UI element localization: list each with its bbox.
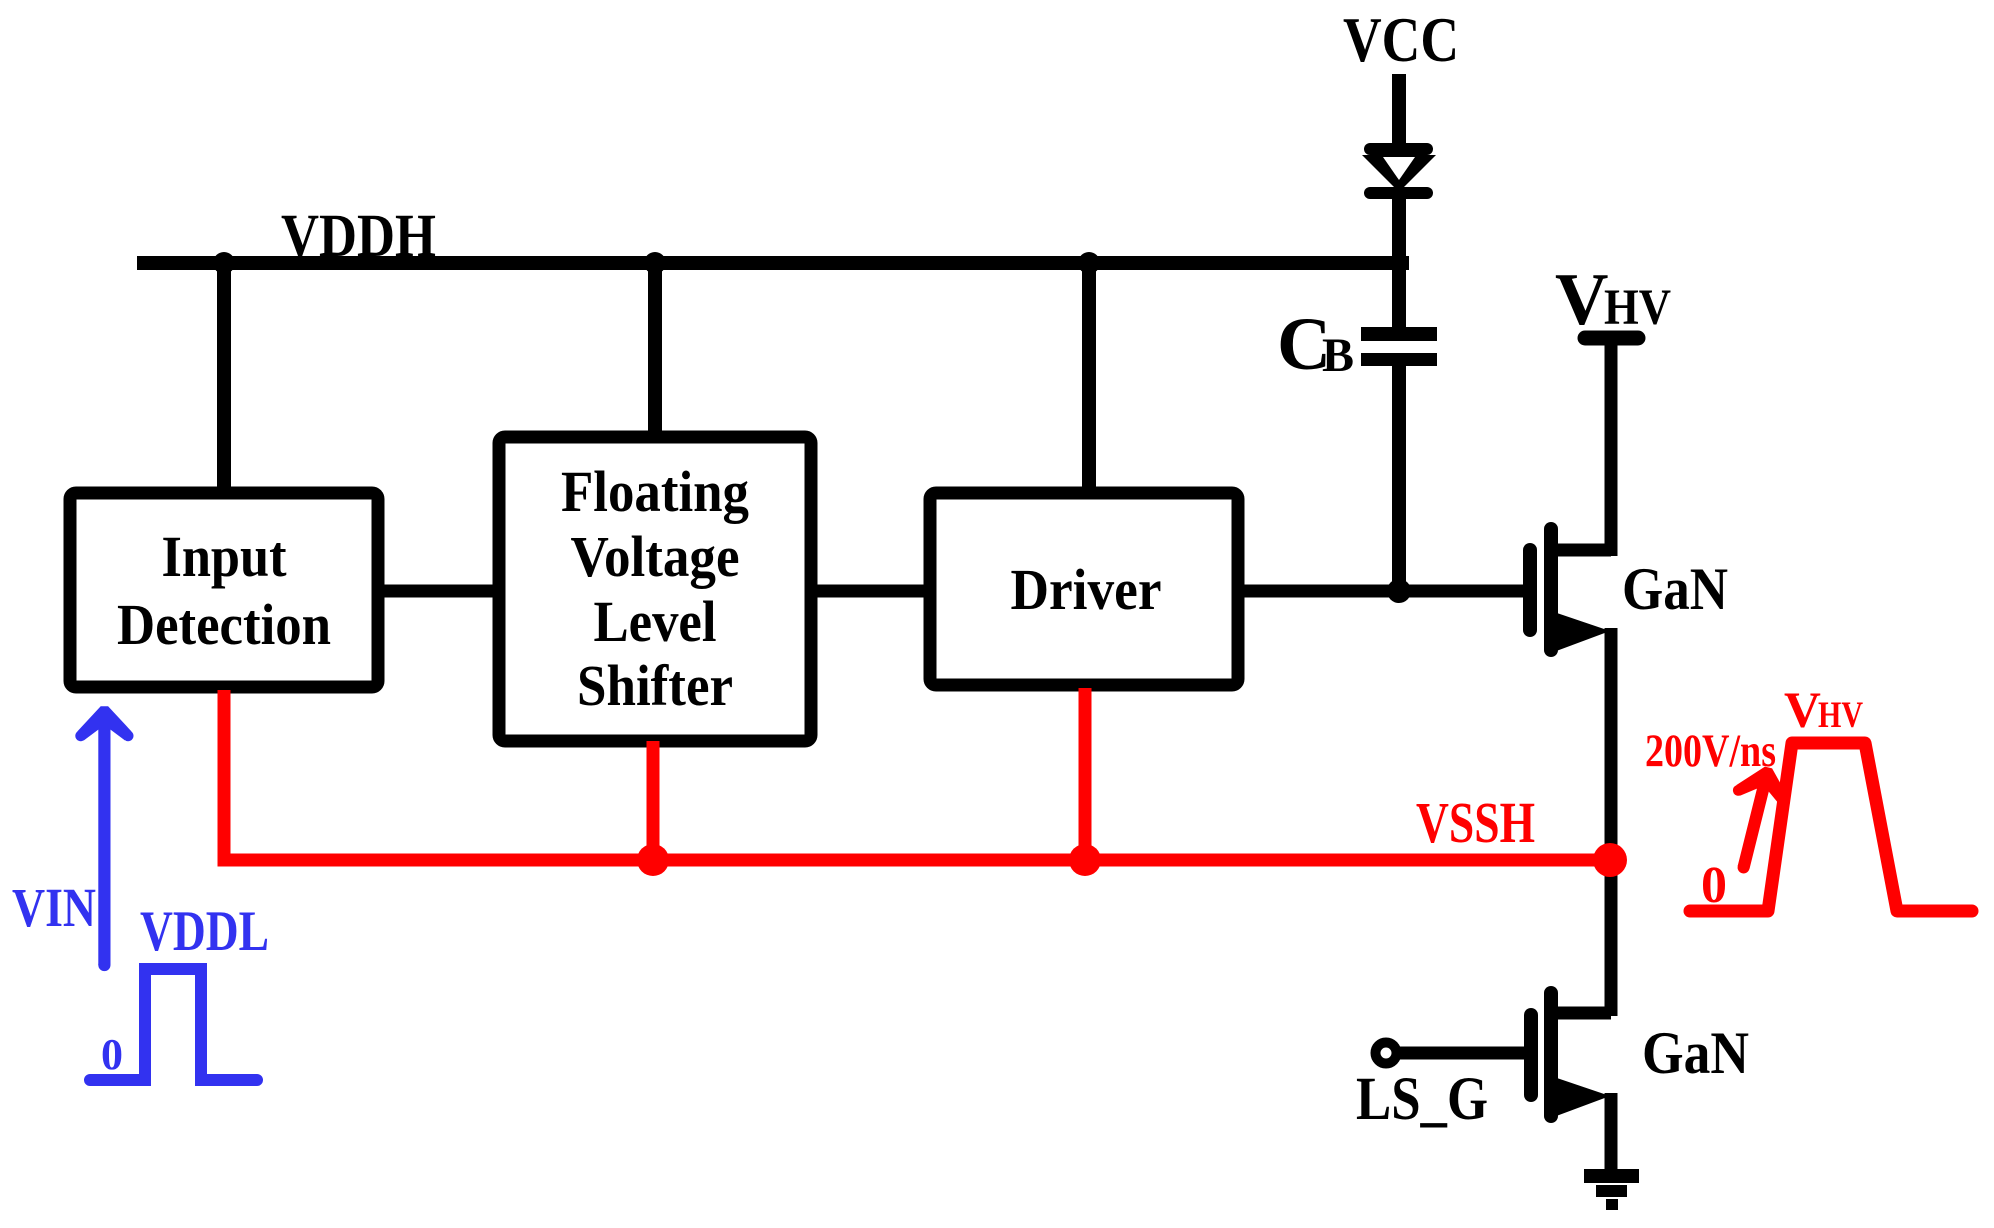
- svg-text:GaN: GaN: [1642, 1020, 1749, 1086]
- wire VDDH to Input Detection: [217, 263, 231, 495]
- wire diode cathode to VDDH node: [1392, 196, 1406, 330]
- transistor Q1 GaN high-side : gate bar: [1523, 550, 1537, 630]
- svg-text:V: V: [1784, 683, 1821, 739]
- junction VSSH / U3: [1069, 844, 1101, 876]
- svg-text:Input: Input: [162, 524, 288, 589]
- svg-text:Voltage: Voltage: [571, 524, 740, 589]
- svg-text:HV: HV: [1604, 280, 1671, 336]
- svg-text:LS_G: LS_G: [1356, 1066, 1488, 1133]
- waveform VHV pulse trace: [1690, 743, 1972, 911]
- transistor Q2 gate bar: [1524, 1015, 1538, 1095]
- svg-text:B: B: [1322, 329, 1354, 382]
- wire U3 out to Q1 gate: [1238, 585, 1530, 598]
- diode D1 triangle: [1362, 155, 1436, 192]
- svg-text:VSSH: VSSH: [1416, 790, 1535, 855]
- wire LS_G to Q2 gate: [1399, 1047, 1531, 1060]
- block U3 Driver: [930, 493, 1238, 685]
- waveform slew arrow (200V/ns): [1714, 760, 1797, 880]
- svg-text:GaN: GaN: [1622, 556, 1728, 622]
- svg-text:Detection: Detection: [117, 592, 331, 657]
- svg-text:Level: Level: [594, 589, 717, 654]
- wire Q2 source to ground: [1605, 1093, 1618, 1172]
- wire VDDH to Level Shifter: [648, 263, 662, 440]
- transistor Q2 GaN low-side : drain lead: [1551, 1007, 1611, 1020]
- capacitor CB bottom plate: [1361, 353, 1437, 366]
- svg-text:VIN: VIN: [12, 877, 96, 938]
- junction gate node: [1387, 579, 1411, 603]
- svg-text:Floating: Floating: [561, 459, 749, 524]
- wire VDDH to Driver: [1082, 263, 1096, 495]
- diode D1 cathode bar: [1370, 187, 1427, 199]
- svg-text:0: 0: [1701, 857, 1727, 914]
- diode D1 anode bar: [1370, 143, 1427, 155]
- transistor Q1 source arrow: [1551, 611, 1610, 653]
- svg-text:200V/ns: 200V/ns: [1645, 725, 1776, 777]
- svg-text:VDDL: VDDL: [140, 900, 269, 963]
- ground symbol: [1584, 1169, 1639, 1183]
- svg-text:0: 0: [101, 1030, 123, 1079]
- block U1 Input Detection: [70, 493, 378, 687]
- wire U1 out to U2 in: [378, 585, 499, 598]
- capacitor CB top plate: [1361, 327, 1437, 341]
- junction VDDH / Level Shifter: [644, 252, 666, 274]
- junction VDDH / Driver: [1078, 252, 1100, 274]
- wire VCC to diode: [1392, 74, 1406, 150]
- supply VHV terminal bar: [1585, 331, 1638, 346]
- wire Q1 source to Q2 drain (switch node): [1605, 628, 1618, 1016]
- junction VDDH / Input Detection: [213, 252, 235, 274]
- junction VSSH / switch node: [1593, 843, 1627, 877]
- transistor Q1 drain lead: [1551, 544, 1611, 557]
- svg-text:VCC: VCC: [1343, 5, 1459, 75]
- waveform VDDL pulse trace: [90, 969, 257, 1080]
- svg-text:Driver: Driver: [1011, 557, 1162, 622]
- wire U2 bottom to VSSH: [647, 741, 660, 860]
- wire CB to gate node: [1392, 366, 1406, 591]
- terminal LS_G circle: [1376, 1043, 1397, 1064]
- block U2 Floating Voltage Level Shifter: [499, 437, 811, 741]
- wire VHV to Q1 drain: [1605, 338, 1618, 556]
- wire VSSH from U1 bottom: [224, 690, 1610, 860]
- signal arrow VIN: [75, 706, 133, 971]
- wire U2 out to U3 in: [811, 585, 930, 598]
- junction VSSH / U2: [637, 844, 669, 876]
- wire VDDH bus: [137, 256, 1409, 270]
- transistor Q2 source arrow: [1551, 1076, 1610, 1118]
- wire U3 bottom to VSSH: [1079, 688, 1092, 860]
- transistor Q1 channel bar: [1544, 529, 1558, 650]
- transistor Q2 channel bar: [1544, 993, 1558, 1116]
- svg-text:HV: HV: [1818, 695, 1863, 736]
- svg-text:Shifter: Shifter: [577, 653, 733, 718]
- svg-text:V: V: [1555, 259, 1608, 341]
